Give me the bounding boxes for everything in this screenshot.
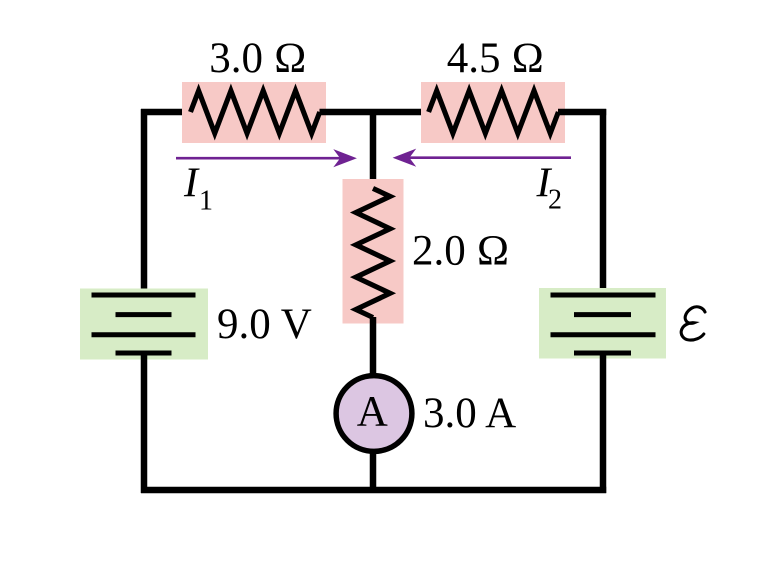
label: script-E EMF symbol of battery V2 [681,307,705,340]
svg-text:3.0 Ω: 3.0 Ω [209,35,307,82]
wire: middle branch top [370,109,377,190]
wire: middle branch below ammeter [370,449,377,493]
ammeter A1 [336,376,412,452]
wire: bottom horizontal [141,487,606,494]
svg-text:4.5 Ω: 4.5 Ω [447,35,545,82]
battery V1 9.0 V [80,289,208,360]
svg-text:2: 2 [548,185,562,216]
svg-text:3.0 A: 3.0 A [423,390,516,437]
wire: middle branch between R3 and ammeter [370,317,377,379]
resistor R3 2.0 ohm [343,179,404,324]
svg-text:I: I [183,161,200,207]
wire: left branch upper [141,109,148,295]
svg-text:1: 1 [199,186,213,217]
wire: top-right lead [558,109,606,116]
battery V2 EMF [539,288,666,359]
current arrow I1 [176,149,357,167]
wire: top middle segment between R1 and R2 [320,109,430,116]
resistor R1 3.0 ohm [182,82,326,143]
svg-text:A: A [357,388,388,435]
wire: right branch upper [600,109,607,295]
current arrow I2 [393,149,571,167]
wire: left branch lower [141,353,148,493]
svg-text:2.0 Ω: 2.0 Ω [412,228,510,275]
wire: top-left lead [141,109,192,116]
resistor R2 4.5 ohm [421,82,565,143]
svg-text:9.0 V: 9.0 V [217,301,312,348]
wire: right branch lower [600,353,607,493]
